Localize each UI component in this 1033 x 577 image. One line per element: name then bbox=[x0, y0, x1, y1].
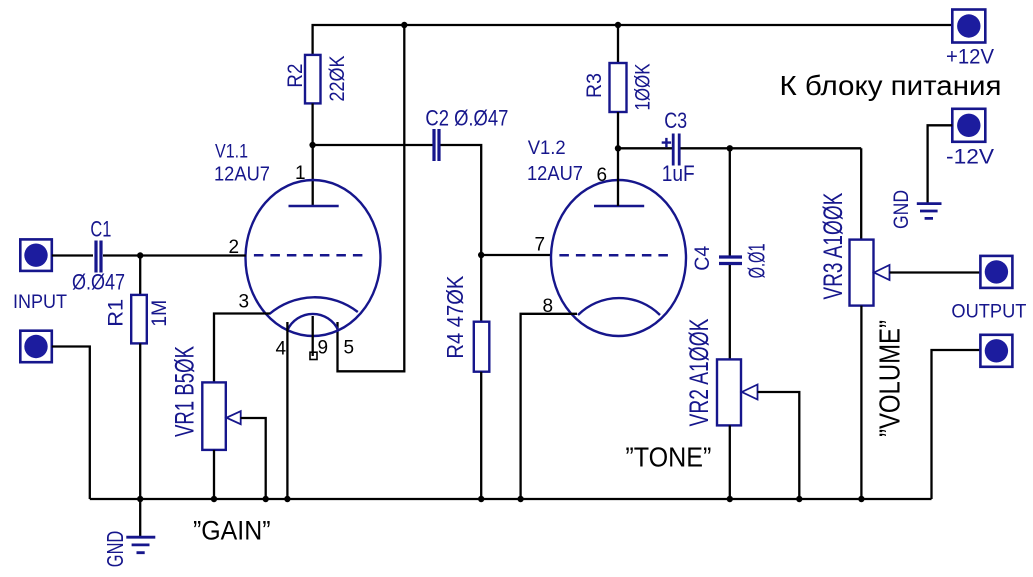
wire input to C1 bbox=[52, 254, 93, 256]
node R4/rail bbox=[478, 496, 484, 502]
node rail/heater junction bbox=[401, 22, 407, 28]
wire pin 8 cathode to rail bbox=[521, 314, 577, 499]
svg-text:VR1 B5ØK: VR1 B5ØK bbox=[169, 346, 199, 437]
svg-text:1: 1 bbox=[295, 163, 306, 184]
svg-text:5: 5 bbox=[344, 338, 355, 359]
wire pin 9 lead bbox=[312, 316, 314, 356]
svg-text:3: 3 bbox=[239, 292, 250, 313]
connector INPUT-2 bbox=[20, 331, 52, 363]
pin 9 terminal square bbox=[310, 352, 317, 359]
svg-text:R1: R1 bbox=[105, 299, 128, 327]
node V1.1 anode junction bbox=[309, 142, 315, 148]
svg-text:R3: R3 bbox=[583, 73, 606, 98]
svg-text:9: 9 bbox=[318, 338, 329, 359]
svg-text:”GAIN”: ”GAIN” bbox=[193, 516, 271, 546]
capacitor C2 bbox=[425, 106, 508, 161]
svg-text:OUTPUT: OUTPUT bbox=[951, 302, 1026, 323]
node V1.2 anode junction bbox=[615, 145, 621, 151]
connector -12V bbox=[952, 109, 985, 142]
svg-text:”TONE”: ”TONE” bbox=[625, 442, 711, 473]
svg-text:-12V: -12V bbox=[946, 146, 994, 169]
wire heater pin5 riser bbox=[338, 25, 405, 371]
svg-text:V1.2: V1.2 bbox=[528, 138, 566, 159]
svg-text:+12V: +12V bbox=[946, 46, 994, 69]
svg-text:”VOLUME”: ”VOLUME” bbox=[875, 320, 907, 437]
capacitor C3 bbox=[662, 108, 695, 186]
wire ground rail bbox=[90, 498, 932, 500]
tube V1.2 bbox=[551, 180, 686, 336]
svg-text:4: 4 bbox=[276, 339, 287, 360]
wire R2 bottom to anode node bbox=[311, 103, 313, 145]
potentiometer VR2 bbox=[684, 319, 758, 427]
node VR2 wiper/rail bbox=[796, 496, 802, 502]
wire ground rail riser to OUTPUT-2 bbox=[932, 350, 981, 499]
connector INPUT-1 bbox=[20, 239, 52, 271]
resistor R3 bbox=[583, 25, 654, 112]
connector OUTPUT-2 bbox=[980, 335, 1012, 367]
svg-text:R4 47ØK: R4 47ØK bbox=[442, 275, 468, 359]
svg-text:C1: C1 bbox=[90, 217, 111, 242]
wire -12V to ground bbox=[928, 125, 953, 203]
svg-text:C2 Ø.Ø47: C2 Ø.Ø47 bbox=[425, 106, 508, 131]
wire C2 right to pin7 bbox=[441, 145, 482, 255]
svg-text:C4: C4 bbox=[691, 246, 714, 271]
connector OUTPUT-1 bbox=[980, 256, 1012, 288]
svg-text:К блоку питания: К блоку питания bbox=[780, 70, 1002, 101]
svg-text:1ØØK: 1ØØK bbox=[631, 64, 654, 111]
wire VR1 bottom to ground rail bbox=[213, 450, 215, 499]
wire R1 bottom to ground rail bbox=[139, 343, 141, 499]
wire VR2 bottom to rail bbox=[729, 425, 731, 499]
svg-text:1uF: 1uF bbox=[662, 161, 695, 186]
wire C1 to grid pin 2 bbox=[103, 254, 246, 256]
wire V1.2 anode net bbox=[618, 148, 672, 206]
wire VR2 wiper to rail bbox=[758, 392, 800, 499]
node VR3/rail bbox=[858, 496, 864, 502]
wire R4 bottom to rail bbox=[480, 372, 482, 499]
svg-text:GND: GND bbox=[890, 190, 913, 229]
tube V1.1 bbox=[246, 180, 381, 336]
svg-text:R2: R2 bbox=[284, 64, 307, 88]
wire V1.1 anode net bbox=[313, 145, 433, 206]
wire pin7 grid net bbox=[481, 254, 550, 256]
wire C3 right net bbox=[681, 147, 862, 149]
svg-text:22ØK: 22ØK bbox=[326, 56, 349, 102]
wire C4 to VR2 bbox=[729, 265, 731, 359]
svg-text:7: 7 bbox=[535, 235, 546, 256]
svg-text:1M: 1M bbox=[148, 300, 171, 327]
node C1/R1 junction bbox=[137, 252, 143, 258]
svg-text:GND: GND bbox=[102, 531, 128, 568]
svg-text:VR3 A1ØØK: VR3 A1ØØK bbox=[818, 193, 848, 300]
wire GND stem bottom-left bbox=[139, 499, 141, 537]
svg-text:INPUT: INPUT bbox=[13, 292, 67, 313]
wire VR3 bottom to rail bbox=[860, 306, 862, 499]
svg-text:12AU7: 12AU7 bbox=[527, 163, 583, 185]
node pin8/rail bbox=[517, 496, 523, 502]
ground symbol right bbox=[917, 204, 942, 219]
wire pin 3 cathode to VR1 bbox=[214, 314, 270, 383]
node VR1 wiper/rail bbox=[263, 496, 269, 502]
wire pin 4 to ground rail bbox=[286, 322, 288, 499]
connector +12V bbox=[952, 10, 985, 43]
wire top +12V rail bbox=[313, 25, 953, 55]
wire C4 branch bbox=[729, 148, 731, 255]
node rail/R3 junction bbox=[615, 22, 621, 28]
svg-text:Ø.Ø1: Ø.Ø1 bbox=[743, 243, 769, 278]
wire VR1 wiper to ground rail bbox=[241, 418, 266, 499]
wire input-2 to ground rail bbox=[52, 347, 90, 500]
potentiometer VR3 bbox=[818, 193, 889, 306]
wire to VR3 top bbox=[860, 148, 862, 239]
capacitor C4 bbox=[691, 243, 769, 278]
resistor R4 bbox=[442, 255, 489, 372]
svg-text:C3: C3 bbox=[664, 108, 687, 133]
potentiometer VR1 bbox=[169, 346, 240, 450]
svg-text:V1.1: V1.1 bbox=[215, 142, 248, 163]
node R1/rail bbox=[137, 496, 143, 502]
svg-text:6: 6 bbox=[597, 165, 608, 186]
ground symbol bottom-left bbox=[126, 537, 155, 553]
svg-text:12AU7: 12AU7 bbox=[214, 163, 270, 185]
node VR1 bottom/rail bbox=[211, 496, 217, 502]
node pin4/rail bbox=[284, 496, 290, 502]
capacitor C1 bbox=[72, 217, 125, 295]
resistor R2 bbox=[284, 55, 349, 104]
resistor R1 bbox=[105, 256, 172, 344]
node pin7 junction bbox=[478, 252, 484, 258]
wire VR3 wiper to OUTPUT-1 bbox=[890, 271, 981, 273]
svg-text:VR2 A1ØØK: VR2 A1ØØK bbox=[684, 319, 714, 427]
node C3/C4 junction bbox=[727, 145, 733, 151]
wire R3 bottom to V1.2 anode bbox=[617, 112, 619, 148]
node VR2/rail bbox=[727, 496, 733, 502]
svg-text:Ø.Ø47: Ø.Ø47 bbox=[72, 270, 125, 295]
